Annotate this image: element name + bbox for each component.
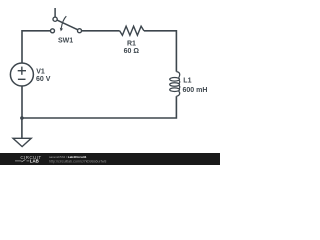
svg-text:L1: L1 (183, 78, 191, 85)
svg-text:600 mH: 600 mH (183, 87, 208, 94)
svg-text:SW1: SW1 (58, 38, 73, 45)
svg-text:R1: R1 (127, 41, 136, 48)
svg-text:LAB: LAB (30, 159, 39, 164)
svg-text:V1: V1 (36, 68, 45, 75)
svg-text:http://circuitlab.com/c/7kb98a: http://circuitlab.com/c/7kb98a6urfw8 (49, 159, 106, 163)
svg-text:60 Ω: 60 Ω (124, 48, 140, 55)
svg-text:60 V: 60 V (36, 76, 51, 83)
